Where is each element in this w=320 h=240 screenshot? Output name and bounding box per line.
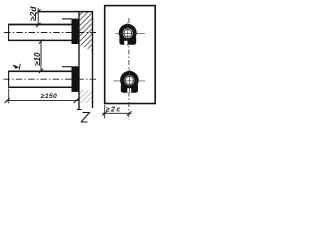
svg-text:≥2c: ≥2c	[106, 107, 122, 114]
svg-text:≥2d: ≥2d	[28, 6, 38, 21]
svg-text:≥150: ≥150	[41, 93, 57, 100]
svg-text:≥10: ≥10	[33, 52, 42, 66]
